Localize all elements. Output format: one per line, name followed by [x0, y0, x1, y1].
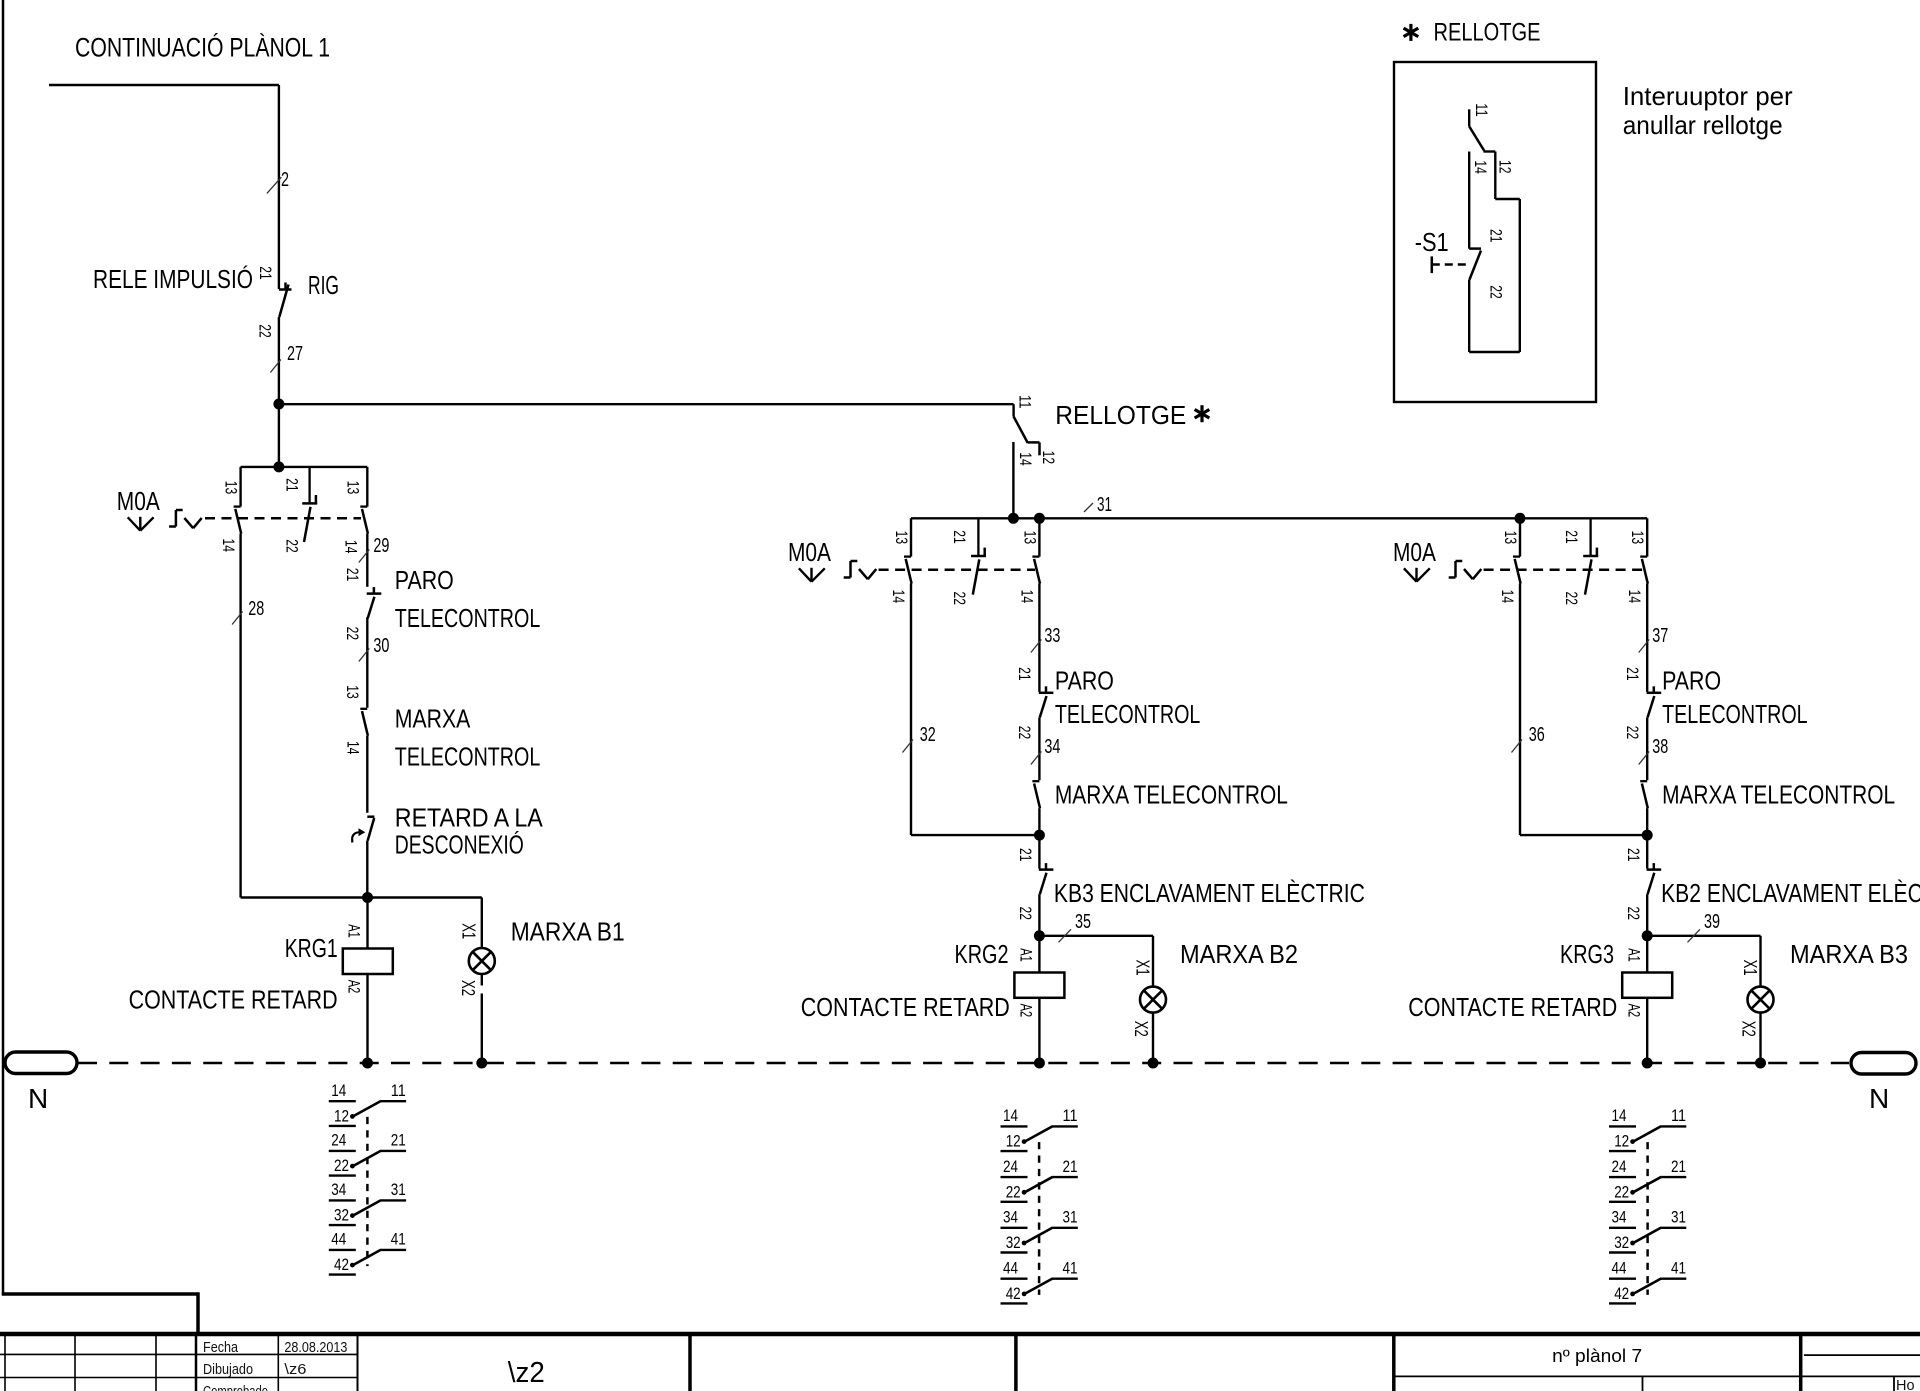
- svg-text:PARO: PARO: [1055, 666, 1114, 696]
- svg-text:42: 42: [1006, 1284, 1021, 1303]
- svg-text:Fecha: Fecha: [203, 1340, 239, 1356]
- svg-text:21: 21: [1486, 229, 1505, 243]
- svg-text:12: 12: [334, 1106, 349, 1125]
- svg-text:N: N: [1869, 1083, 1889, 1114]
- svg-text:36: 36: [1529, 724, 1545, 746]
- svg-text:14: 14: [1003, 1106, 1018, 1125]
- svg-text:N: N: [28, 1083, 48, 1114]
- svg-text:Comprobado: Comprobado: [203, 1384, 268, 1391]
- svg-text:KB3 ENCLAVAMENT ELÈCTRIC: KB3 ENCLAVAMENT ELÈCTRIC: [1054, 878, 1365, 908]
- svg-text:X2: X2: [458, 980, 478, 996]
- svg-text:34: 34: [1044, 736, 1060, 758]
- svg-text:14: 14: [1625, 590, 1644, 604]
- svg-text:TELECONTROL: TELECONTROL: [1055, 699, 1201, 729]
- svg-text:11: 11: [1671, 1106, 1686, 1125]
- svg-text:11: 11: [391, 1081, 406, 1100]
- svg-text:PARO: PARO: [395, 565, 454, 595]
- svg-text:Dibujado: Dibujado: [203, 1362, 253, 1378]
- svg-text:RELLOTGE: RELLOTGE: [1434, 18, 1541, 46]
- svg-text:12: 12: [1614, 1132, 1629, 1151]
- svg-text:\z6: \z6: [284, 1362, 306, 1378]
- svg-text:X1: X1: [1133, 960, 1153, 976]
- svg-text:CONTACTE RETARD: CONTACTE RETARD: [129, 984, 338, 1014]
- svg-text:21: 21: [1015, 667, 1034, 681]
- svg-text:22: 22: [1614, 1182, 1629, 1201]
- svg-text:12: 12: [1496, 160, 1515, 174]
- svg-text:21: 21: [343, 568, 362, 582]
- svg-text:21: 21: [256, 266, 275, 280]
- svg-text:31: 31: [391, 1180, 406, 1199]
- svg-text:14: 14: [1471, 160, 1490, 174]
- svg-text:31: 31: [1097, 494, 1112, 516]
- svg-text:Ho: Ho: [1896, 1378, 1915, 1391]
- svg-text:13: 13: [343, 685, 362, 699]
- svg-text:21: 21: [1562, 530, 1581, 544]
- svg-text:34: 34: [1003, 1208, 1018, 1227]
- svg-text:21: 21: [282, 478, 301, 492]
- svg-text:X2: X2: [1739, 1021, 1759, 1037]
- svg-text:35: 35: [1075, 911, 1091, 933]
- svg-text:M0A: M0A: [117, 486, 161, 516]
- svg-text:22: 22: [1624, 907, 1643, 921]
- svg-text:TELECONTROL: TELECONTROL: [395, 741, 541, 771]
- svg-text:2: 2: [281, 169, 289, 191]
- svg-text:KRG2: KRG2: [955, 939, 1009, 969]
- svg-text:32: 32: [334, 1206, 349, 1225]
- svg-text:M0A: M0A: [1393, 537, 1437, 567]
- svg-text:MARXA: MARXA: [395, 704, 471, 734]
- svg-text:39: 39: [1704, 911, 1720, 933]
- svg-text:42: 42: [1614, 1284, 1629, 1303]
- svg-text:14: 14: [889, 590, 908, 604]
- svg-text:32: 32: [1614, 1233, 1629, 1252]
- svg-text:14: 14: [1612, 1106, 1627, 1125]
- svg-text:32: 32: [920, 724, 936, 746]
- svg-text:PARO: PARO: [1662, 666, 1721, 696]
- svg-text:41: 41: [1671, 1259, 1686, 1278]
- svg-text:24: 24: [1003, 1157, 1018, 1176]
- svg-text:21: 21: [1671, 1157, 1686, 1176]
- svg-text:21: 21: [1624, 848, 1643, 862]
- svg-text:-S1: -S1: [1415, 227, 1449, 257]
- svg-text:MARXA B3: MARXA B3: [1790, 939, 1908, 969]
- svg-text:13: 13: [1501, 531, 1520, 545]
- svg-text:44: 44: [1612, 1259, 1627, 1278]
- svg-text:MARXA B2: MARXA B2: [1180, 939, 1298, 969]
- svg-text:32: 32: [1006, 1233, 1021, 1252]
- svg-text:37: 37: [1652, 625, 1668, 647]
- svg-text:KB2 ENCLAVAMENT ELÈCTRIC: KB2 ENCLAVAMENT ELÈCTRIC: [1661, 878, 1920, 908]
- svg-text:A2: A2: [1017, 1004, 1036, 1018]
- svg-text:11: 11: [1472, 103, 1491, 117]
- svg-text:CONTACTE RETARD: CONTACTE RETARD: [1408, 992, 1617, 1022]
- svg-text:22: 22: [1006, 1182, 1021, 1201]
- svg-text:TELECONTROL: TELECONTROL: [395, 603, 541, 633]
- svg-text:anullar rellotge: anullar rellotge: [1623, 110, 1783, 140]
- svg-text:A1: A1: [345, 924, 364, 938]
- svg-text:21: 21: [1063, 1157, 1078, 1176]
- svg-text:21: 21: [1623, 667, 1642, 681]
- svg-text:42: 42: [334, 1255, 349, 1274]
- svg-text:24: 24: [1612, 1157, 1627, 1176]
- svg-text:22: 22: [343, 627, 362, 641]
- svg-text:24: 24: [331, 1131, 346, 1150]
- svg-text:13: 13: [892, 531, 911, 545]
- svg-text:TELECONTROL: TELECONTROL: [1662, 699, 1808, 729]
- svg-text:DESCONEXIÓ: DESCONEXIÓ: [395, 829, 524, 859]
- svg-text:RELLOTGE: RELLOTGE: [1055, 400, 1186, 430]
- svg-text:41: 41: [391, 1230, 406, 1249]
- svg-text:22: 22: [1562, 592, 1581, 606]
- svg-text:34: 34: [331, 1180, 346, 1199]
- svg-text:A2: A2: [1624, 1004, 1643, 1018]
- svg-text:14: 14: [1498, 590, 1517, 604]
- svg-text:22: 22: [1015, 726, 1034, 740]
- svg-text:33: 33: [1044, 625, 1060, 647]
- svg-text:RELE IMPULSIÓ: RELE IMPULSIÓ: [93, 264, 253, 294]
- svg-text:13: 13: [222, 481, 241, 495]
- svg-text:14: 14: [1017, 590, 1036, 604]
- svg-text:34: 34: [1612, 1208, 1627, 1227]
- svg-text:KRG1: KRG1: [285, 933, 338, 963]
- svg-text:14: 14: [1016, 452, 1035, 466]
- svg-text:31: 31: [1671, 1208, 1686, 1227]
- svg-text:CONTACTE RETARD: CONTACTE RETARD: [801, 992, 1010, 1022]
- svg-text:14: 14: [331, 1081, 346, 1100]
- svg-text:11: 11: [1016, 395, 1035, 409]
- svg-text:13: 13: [344, 481, 363, 495]
- svg-text:14: 14: [342, 540, 361, 554]
- svg-text:28: 28: [248, 598, 264, 620]
- svg-text:22: 22: [255, 324, 274, 338]
- svg-text:13: 13: [1020, 531, 1039, 545]
- svg-text:11: 11: [1063, 1106, 1078, 1125]
- svg-text:X2: X2: [1131, 1021, 1151, 1037]
- svg-text:22: 22: [334, 1156, 349, 1175]
- svg-text:X1: X1: [1740, 960, 1760, 976]
- svg-text:28.08.2013: 28.08.2013: [284, 1340, 347, 1356]
- svg-text:KRG3: KRG3: [1560, 939, 1614, 969]
- svg-text:41: 41: [1063, 1259, 1078, 1278]
- svg-text:RIG: RIG: [308, 270, 339, 300]
- svg-text:MARXA TELECONTROL: MARXA TELECONTROL: [1662, 780, 1895, 810]
- svg-text:38: 38: [1652, 736, 1668, 758]
- svg-text:CONTINUACIÓ PLÀNOL 1: CONTINUACIÓ PLÀNOL 1: [75, 32, 330, 63]
- svg-text:21: 21: [391, 1131, 406, 1150]
- svg-text:X1: X1: [459, 923, 479, 939]
- svg-text:29: 29: [373, 535, 389, 557]
- svg-text:12: 12: [1006, 1132, 1021, 1151]
- svg-text:21: 21: [950, 530, 969, 544]
- svg-text:22: 22: [1486, 285, 1505, 299]
- svg-text:M0A: M0A: [788, 537, 832, 567]
- svg-text:A1: A1: [1017, 948, 1036, 962]
- svg-text:27: 27: [287, 343, 303, 365]
- svg-text:44: 44: [1003, 1259, 1018, 1278]
- svg-text:12: 12: [1039, 451, 1058, 465]
- svg-text:21: 21: [1016, 848, 1035, 862]
- svg-text:\z2: \z2: [508, 1357, 545, 1389]
- svg-text:Interuuptor per: Interuuptor per: [1623, 81, 1793, 111]
- svg-text:A2: A2: [345, 980, 364, 994]
- svg-text:22: 22: [1016, 907, 1035, 921]
- svg-text:13: 13: [1628, 531, 1647, 545]
- svg-text:MARXA TELECONTROL: MARXA TELECONTROL: [1055, 780, 1288, 810]
- svg-text:A1: A1: [1624, 948, 1643, 962]
- svg-text:22: 22: [282, 539, 301, 553]
- svg-text:MARXA B1: MARXA B1: [511, 916, 625, 946]
- svg-text:14: 14: [344, 741, 363, 755]
- svg-text:22: 22: [950, 592, 969, 606]
- svg-text:nº plànol 7: nº plànol 7: [1552, 1346, 1642, 1366]
- svg-text:RETARD A LA: RETARD A LA: [395, 803, 544, 833]
- svg-text:31: 31: [1063, 1208, 1078, 1227]
- svg-text:30: 30: [373, 635, 389, 657]
- svg-text:14: 14: [219, 539, 238, 553]
- svg-text:22: 22: [1623, 726, 1642, 740]
- svg-text:44: 44: [331, 1230, 346, 1249]
